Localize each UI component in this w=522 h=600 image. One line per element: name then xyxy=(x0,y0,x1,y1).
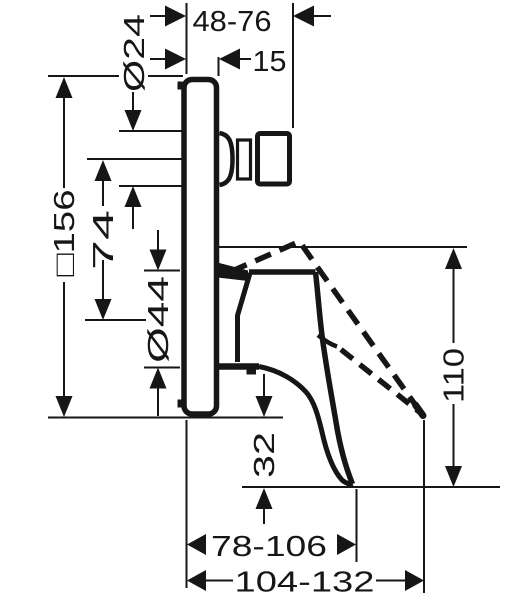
lever-up top level line y=247 xyxy=(218,246,467,248)
dim 32 xyxy=(256,374,273,524)
dim square156 xyxy=(56,77,73,417)
housing right edge and spout outer curve xyxy=(316,272,353,484)
hub centre line y=320 xyxy=(85,319,146,321)
svg-text:104-132: 104-132 xyxy=(235,567,375,599)
knob centre line y=159 xyxy=(87,158,184,160)
knob cylinder xyxy=(238,140,251,179)
plate top level line y=76 xyxy=(48,75,119,77)
lever rear stub (wedge) xyxy=(218,263,249,282)
dim 15 left arrow xyxy=(150,49,186,70)
hub bottom line y=367 xyxy=(144,367,180,369)
extension line x=218.5 (15 right) xyxy=(218,57,220,76)
extension line x=186 top xyxy=(186,3,188,74)
plate bottom level line y=417 xyxy=(48,417,283,419)
svg-text:15: 15 xyxy=(253,46,287,78)
hub top line y=270 xyxy=(144,270,180,272)
knob bottom line y=186 xyxy=(119,185,182,187)
dim 104-132 arrows xyxy=(187,570,424,591)
svg-text:78-106: 78-106 xyxy=(211,531,327,563)
dim 48-76 right arrow xyxy=(293,6,331,27)
extension line x=356 bottom xyxy=(356,489,358,562)
svg-text:□156: □156 xyxy=(49,190,81,277)
dim diameter44 xyxy=(150,230,167,416)
knob bulge xyxy=(220,133,233,185)
svg-text:32: 32 xyxy=(249,432,281,478)
dim 48-76 left arrow xyxy=(150,6,186,27)
dim 15 arrow xyxy=(219,49,251,70)
svg-text:Ø44: Ø44 xyxy=(143,276,175,363)
wall plate xyxy=(184,80,217,415)
knob top line y=131 xyxy=(119,130,182,132)
housing bottom line to plate xyxy=(217,363,259,370)
lever raised tip cap xyxy=(416,405,424,416)
extension line x=424 bottom xyxy=(423,420,425,593)
svg-text:Ø24: Ø24 xyxy=(119,14,151,92)
spout inner curve xyxy=(259,367,353,484)
lever raised bottom edge (dashed) xyxy=(341,350,420,413)
handle housing left edge xyxy=(238,273,251,362)
lever raised top edge (dashed) xyxy=(231,242,424,418)
dim 74 xyxy=(95,160,112,320)
extension line x=186 bottom xyxy=(186,420,188,588)
svg-text:110: 110 xyxy=(439,348,471,403)
dim 110 xyxy=(445,248,462,487)
dim diameter24 xyxy=(125,92,142,229)
lever separation stub xyxy=(318,335,337,347)
nub under bottom line xyxy=(247,369,257,375)
extension line x=293 top xyxy=(292,3,294,128)
svg-text:48-76: 48-76 xyxy=(193,6,272,38)
knob end cap xyxy=(258,134,290,185)
spout bottom level line y=487 xyxy=(242,486,500,488)
plate flange nub top xyxy=(178,82,183,90)
dim 78-106 arrows xyxy=(187,534,356,555)
svg-text:74: 74 xyxy=(88,210,120,270)
handle housing top edge xyxy=(249,269,316,275)
plate flange nub bottom xyxy=(178,400,183,408)
